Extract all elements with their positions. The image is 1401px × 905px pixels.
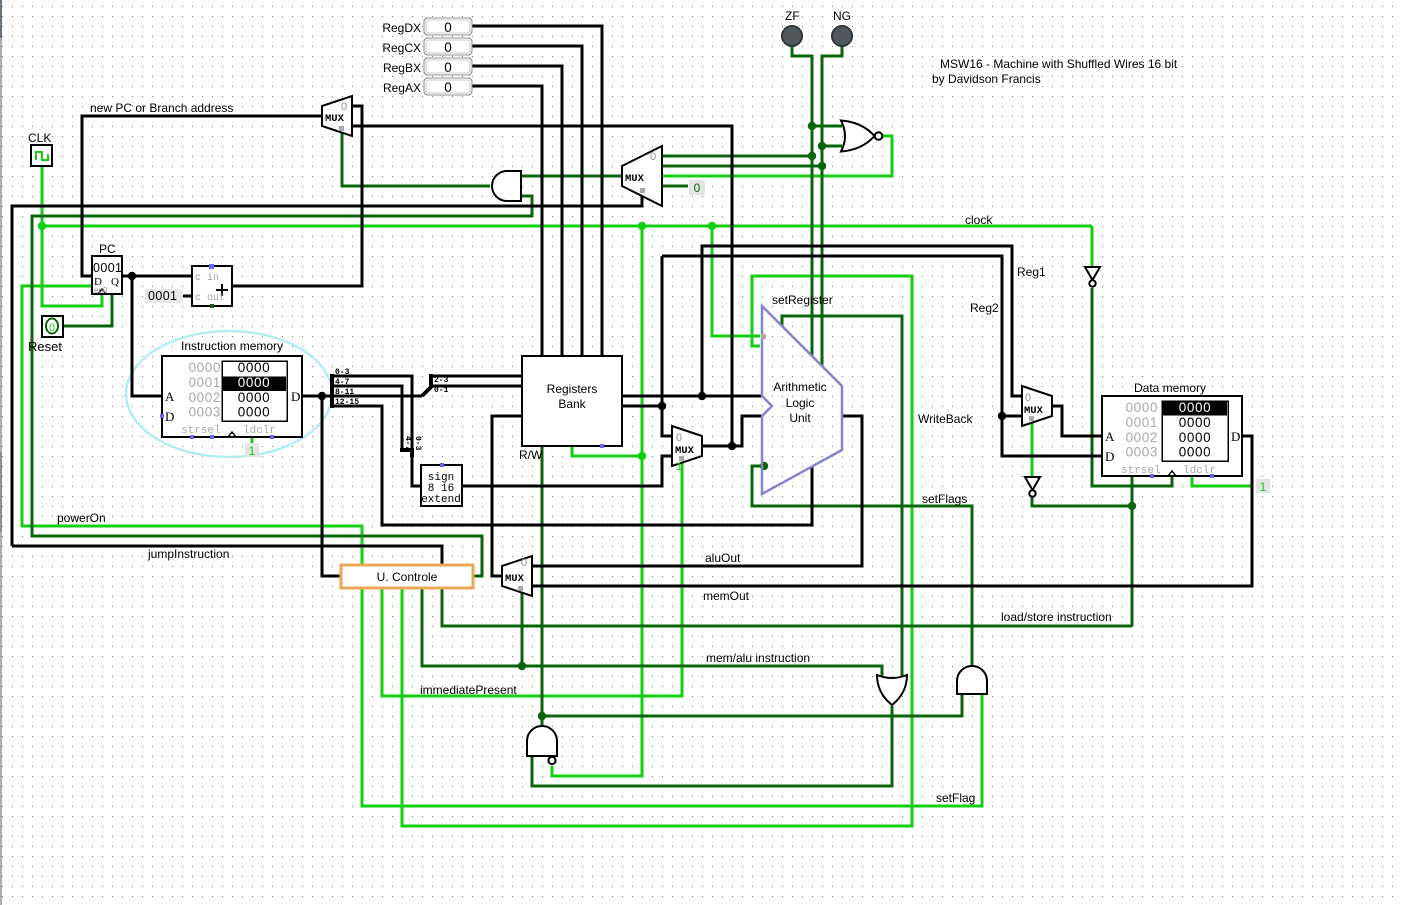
svg-text:Logic: Logic bbox=[786, 396, 815, 410]
svg-text:en0: en0 bbox=[94, 286, 108, 295]
wire PC Q to adder bbox=[122, 275, 192, 278]
sign extend top pin bbox=[440, 463, 444, 467]
junction clock R/W bbox=[638, 452, 646, 460]
wire splitter3 trunk to sign extend bbox=[412, 457, 421, 486]
svg-text:1: 1 bbox=[249, 444, 256, 458]
data memory floating pins bbox=[1150, 474, 1214, 478]
wire instruction D bus bbox=[302, 395, 332, 398]
wire NG net vertical bbox=[822, 46, 842, 366]
svg-text:immediatePresent: immediatePresent bbox=[420, 683, 517, 697]
svg-text:MUX: MUX bbox=[505, 573, 525, 585]
constant 0001 label bbox=[145, 289, 183, 303]
wire MUX2 input 0 constant bbox=[662, 185, 688, 188]
svg-text:aluOut: aluOut bbox=[705, 551, 741, 565]
junction MUX5 out bbox=[728, 442, 736, 450]
wire splitter branch 12-15 opcode bbox=[332, 406, 812, 525]
wire R/W from Registers Bank bbox=[572, 446, 642, 456]
svg-text:Reset: Reset bbox=[28, 339, 62, 354]
mux MUX5 immediate bbox=[672, 426, 702, 466]
left window border bar bbox=[0, 0, 2, 905]
svg-text:0: 0 bbox=[650, 151, 656, 163]
svg-text:0001: 0001 bbox=[93, 261, 122, 275]
wire sign extend out to MUX5 bbox=[462, 456, 672, 486]
probe RegDX bbox=[424, 18, 472, 35]
probe RegBX inner bbox=[426, 60, 470, 73]
svg-text:0000: 0000 bbox=[1126, 400, 1158, 415]
svg-text:D: D bbox=[1105, 449, 1114, 464]
junction ZF MUX2 bbox=[808, 152, 816, 160]
svg-text:clock: clock bbox=[965, 213, 993, 227]
probe RegAX bbox=[424, 78, 472, 95]
svg-text:1: 1 bbox=[1260, 480, 1267, 494]
subcircuit U. Controle bbox=[341, 565, 473, 588]
svg-text:RegCX: RegCX bbox=[382, 41, 421, 55]
wire ALU flag to OR gate bbox=[782, 316, 902, 676]
data memory highlight row bbox=[1163, 402, 1227, 416]
mux MUX4 memory address bbox=[1022, 386, 1052, 426]
svg-text:setFlag: setFlag bbox=[936, 791, 975, 805]
svg-text:0000: 0000 bbox=[189, 360, 221, 375]
wire memOut bbox=[532, 436, 1252, 586]
data memory constant 1 bbox=[1256, 479, 1270, 494]
mux MUX3 writeback bbox=[502, 556, 532, 596]
svg-text:new PC or Branch address: new PC or Branch address bbox=[90, 101, 233, 115]
svg-text:MUX: MUX bbox=[625, 173, 645, 185]
wire new PC or Branch address bbox=[82, 116, 322, 276]
svg-text:0000: 0000 bbox=[238, 360, 270, 375]
register PC bbox=[92, 256, 122, 294]
svg-text:R/W: R/W bbox=[519, 448, 543, 462]
svg-text:0003: 0003 bbox=[1126, 445, 1158, 460]
svg-text:0: 0 bbox=[444, 60, 452, 75]
svg-text:mem/alu instruction: mem/alu instruction bbox=[706, 651, 810, 665]
svg-text:Unit: Unit bbox=[789, 411, 811, 425]
wire NG to NOR input bbox=[822, 145, 842, 148]
junction NG NOR bbox=[818, 142, 826, 150]
wire Registers Bank write enable bbox=[541, 446, 544, 726]
svg-text:D: D bbox=[1231, 429, 1240, 444]
svg-text:memOut: memOut bbox=[703, 589, 750, 603]
wire clock to PC clk bbox=[42, 226, 102, 306]
svg-text:4-7: 4-7 bbox=[335, 378, 350, 387]
svg-text:0000: 0000 bbox=[238, 375, 270, 390]
svg-text:c in: c in bbox=[195, 272, 219, 284]
junction Reg2 x=662 bbox=[658, 402, 666, 410]
wire ZF to MUX2 input bbox=[662, 155, 812, 158]
svg-text:0: 0 bbox=[444, 80, 452, 95]
and gate G1 west bbox=[492, 171, 521, 201]
wire clock branch x=712 to ALU bbox=[712, 226, 760, 336]
wire strsel up to data memory bbox=[1131, 476, 1134, 626]
svg-text:U. Controle: U. Controle bbox=[377, 570, 438, 584]
svg-text:jumpInstruction: jumpInstruction bbox=[147, 547, 229, 561]
junction strsel bbox=[1128, 502, 1136, 510]
wire RegBX probe bbox=[472, 66, 562, 356]
svg-text:D: D bbox=[165, 409, 174, 424]
wire NG to MUX2 input bbox=[662, 165, 822, 168]
svg-text:Instruction memory: Instruction memory bbox=[181, 339, 283, 353]
junction Reg2 data bbox=[998, 412, 1006, 420]
wire powerOn to PC enable bbox=[22, 286, 362, 566]
wire ZF to NOR input bbox=[812, 125, 842, 128]
instruction memory clock marker bbox=[228, 432, 236, 437]
wire splitter branch 0-3 bbox=[332, 376, 412, 449]
Registers Bank floating pin bbox=[600, 444, 604, 448]
wire clock branch x=642 down bbox=[552, 226, 642, 776]
svg-text:c out: c out bbox=[195, 293, 225, 304]
MUX2 constant 0 label bbox=[689, 180, 705, 195]
wire immediatePresent bbox=[382, 461, 682, 696]
junction PC Q bbox=[128, 272, 136, 280]
wire mem/alu instruction bbox=[422, 588, 882, 676]
svg-text:Reg1: Reg1 bbox=[1017, 265, 1046, 279]
svg-text:0: 0 bbox=[521, 557, 527, 569]
svg-text:A: A bbox=[165, 389, 175, 404]
adder PC+1 bbox=[192, 264, 232, 308]
svg-text:D: D bbox=[291, 389, 300, 404]
svg-text:2-3: 2-3 bbox=[434, 376, 449, 385]
svg-text:A: A bbox=[1105, 429, 1115, 444]
instruction memory box bbox=[162, 356, 302, 437]
MUX1 select pin square bbox=[339, 126, 344, 131]
wire PF from NOR to MUX bbox=[662, 136, 892, 176]
svg-text:Data memory: Data memory bbox=[1134, 381, 1206, 395]
svg-text:0: 0 bbox=[49, 322, 55, 334]
MUX5 select pin square bbox=[679, 456, 684, 461]
wire CLK output down bbox=[41, 166, 44, 226]
svg-text:0000: 0000 bbox=[1179, 445, 1211, 460]
svg-text:0: 0 bbox=[676, 432, 682, 444]
wire splitter2 branch 2-3 bbox=[431, 375, 522, 378]
splitter instruction word fanout bbox=[330, 374, 334, 408]
mux MUX1 new PC select bbox=[322, 96, 352, 136]
svg-text:Reg2: Reg2 bbox=[970, 301, 999, 315]
wire constant 0001 to adder bbox=[182, 295, 192, 298]
wire adder out to MUX1 input0 bbox=[232, 106, 362, 286]
svg-text:CLK: CLK bbox=[28, 131, 51, 145]
junction ZF NOR bbox=[808, 122, 816, 130]
or gate south bbox=[877, 675, 907, 705]
wire PC Q to instruction memory A bbox=[132, 276, 162, 396]
probe RegBX bbox=[424, 58, 472, 75]
wire clock to inverter bbox=[1091, 226, 1094, 266]
not gate clock inverter bbox=[1085, 267, 1100, 287]
svg-text:0-3: 0-3 bbox=[413, 436, 422, 451]
svg-text:0003: 0003 bbox=[189, 405, 221, 420]
svg-text:0: 0 bbox=[444, 40, 452, 55]
svg-text:strsel: strsel bbox=[1121, 465, 1161, 477]
svg-text:0: 0 bbox=[341, 101, 347, 113]
subcircuit Registers Bank bbox=[522, 356, 622, 446]
wire inverted clock to data memory bbox=[1092, 288, 1172, 486]
svg-text:0000: 0000 bbox=[238, 405, 270, 420]
svg-text:4-7: 4-7 bbox=[403, 436, 412, 451]
wire MUX4 out to data memory A bbox=[1052, 406, 1102, 436]
junction clock/CLK bbox=[38, 222, 46, 230]
svg-text:RegDX: RegDX bbox=[382, 21, 421, 35]
wire setFlags to ALU bbox=[752, 466, 972, 666]
svg-text:powerOn: powerOn bbox=[57, 511, 106, 525]
ALU body bbox=[762, 306, 842, 494]
wire aluOut bbox=[532, 416, 862, 566]
svg-text:0: 0 bbox=[694, 181, 701, 195]
wire setRegister bbox=[402, 276, 912, 826]
svg-text:RegBX: RegBX bbox=[383, 61, 421, 75]
svg-text:Q: Q bbox=[111, 276, 119, 288]
wire jumpInstruction bbox=[12, 546, 442, 566]
svg-text:1: 1 bbox=[676, 461, 682, 473]
svg-text:ZF: ZF bbox=[785, 9, 800, 23]
svg-text:NG: NG bbox=[833, 9, 851, 23]
svg-text:0001: 0001 bbox=[148, 289, 177, 303]
and gate G3 north bbox=[527, 726, 557, 764]
svg-text:0-1: 0-1 bbox=[434, 386, 449, 395]
wire Reg1 up and over bbox=[702, 246, 1022, 396]
instruction memory constant 1 bbox=[245, 443, 259, 458]
svg-text:0001: 0001 bbox=[189, 375, 221, 390]
svg-text:extend: extend bbox=[421, 494, 461, 506]
subcircuit sign extend bbox=[421, 465, 462, 506]
wire setFlag bbox=[362, 588, 982, 806]
wire MUX2 out to AND bbox=[522, 175, 622, 178]
probe RegDX inner bbox=[426, 20, 470, 33]
data memory box bbox=[1102, 396, 1242, 476]
svg-text:0002: 0002 bbox=[1126, 430, 1158, 445]
svg-text:MUX: MUX bbox=[1024, 405, 1044, 417]
svg-text:setFlags: setFlags bbox=[922, 492, 967, 506]
wire MUX5 out bus bbox=[352, 126, 732, 446]
svg-text:strsel: strsel bbox=[181, 425, 221, 437]
wire MUX3 select bbox=[521, 591, 524, 666]
svg-text:by Davidson Francis: by Davidson Francis bbox=[932, 72, 1041, 86]
junction Reg1 ALU A bbox=[698, 392, 706, 400]
data memory value frame bbox=[1162, 401, 1228, 461]
junction clock x=712 bbox=[708, 222, 716, 230]
wire mux select to inverter bbox=[1031, 421, 1034, 476]
wire inverter2 out to strsel net bbox=[1032, 495, 1132, 506]
wire instruction bus to MUX2 select bbox=[12, 196, 642, 546]
wire Reg2 to MUX4 input bbox=[1002, 415, 1022, 418]
probe ZF bbox=[782, 26, 802, 46]
junction instruction D bbox=[318, 392, 326, 400]
wire splitter2 branch 0-1 bbox=[431, 385, 522, 388]
svg-text:Arithmetic: Arithmetic bbox=[773, 380, 826, 394]
ALU clock pin square bbox=[761, 334, 766, 339]
wire Reg2 to MUX5 input0 bbox=[622, 405, 662, 408]
wire Reg2 over to data memory bbox=[662, 256, 1102, 456]
clock input CLK bbox=[31, 145, 52, 166]
svg-text:WriteBack: WriteBack bbox=[918, 412, 973, 426]
svg-text:MUX: MUX bbox=[675, 445, 695, 457]
junction clock x=642 bbox=[638, 222, 646, 230]
svg-text:12-15: 12-15 bbox=[335, 398, 359, 407]
wire RegCX probe bbox=[472, 46, 582, 356]
probe RegCX bbox=[424, 38, 472, 55]
wire Reg2 vertical x=662 bbox=[662, 256, 672, 436]
junction write enable bbox=[538, 712, 546, 720]
svg-text:8-11: 8-11 bbox=[335, 388, 354, 397]
svg-text:PC: PC bbox=[99, 242, 116, 256]
wire data memory ldclr 1 bbox=[1192, 476, 1252, 486]
wire MUX1 select bbox=[342, 132, 490, 186]
MUX4 select pin square bbox=[1029, 416, 1034, 421]
wire instruction memory ldclr 1 bbox=[251, 437, 254, 447]
svg-text:0-3: 0-3 bbox=[335, 368, 350, 377]
probe NG bbox=[832, 26, 852, 46]
svg-text:0001: 0001 bbox=[1126, 415, 1158, 430]
junction NG MUX2 bbox=[818, 162, 826, 170]
svg-text:Bank: Bank bbox=[558, 397, 586, 411]
svg-text:0000: 0000 bbox=[1179, 415, 1211, 430]
svg-text:0002: 0002 bbox=[189, 390, 221, 405]
wire RegAX probe bbox=[472, 86, 542, 356]
wire bus to ALU input B bbox=[732, 416, 762, 446]
svg-text:load/store instruction: load/store instruction bbox=[1001, 610, 1112, 624]
wire U.Controle out to AND input bbox=[32, 196, 532, 576]
wire Reset to PC bbox=[62, 294, 112, 326]
svg-text:MUX: MUX bbox=[325, 113, 345, 125]
wire Reg1 to ALU A bbox=[622, 395, 762, 398]
MUX3 select pin square bbox=[518, 586, 523, 591]
svg-text:0000: 0000 bbox=[238, 390, 270, 405]
svg-text:0: 0 bbox=[444, 20, 452, 35]
svg-text:MSW16 - Machine with Shuffled: MSW16 - Machine with Shuffled Wires 16 b… bbox=[940, 57, 1178, 71]
svg-text:0: 0 bbox=[1025, 392, 1031, 404]
wire splitter branch 4-7 bbox=[332, 386, 402, 449]
svg-text:0000: 0000 bbox=[1179, 430, 1211, 445]
instruction memory floating pins bbox=[160, 414, 274, 439]
mux MUX2 flags bbox=[622, 146, 662, 206]
and gate G4 north bbox=[957, 666, 987, 694]
data memory clock marker bbox=[1168, 471, 1176, 476]
wire AND gate to y716 line bbox=[542, 694, 962, 716]
wire OR out to AND input bbox=[532, 706, 892, 786]
junction setFlags ALU pin bbox=[760, 462, 768, 470]
wire RegDX probe bbox=[472, 26, 602, 356]
MUX2 select pin square bbox=[640, 188, 645, 193]
instruction memory highlight row bbox=[223, 377, 286, 392]
button Reset bbox=[42, 316, 63, 337]
wire MUX3 out to Registers Bank bbox=[492, 416, 522, 576]
svg-text:RegAX: RegAX bbox=[383, 81, 421, 95]
instruction memory halo ellipse bbox=[126, 331, 332, 457]
wire ZF net vertical bbox=[792, 46, 812, 356]
probe RegCX inner bbox=[426, 40, 470, 53]
wire load/store instruction bbox=[442, 588, 1132, 626]
instruction memory value frame bbox=[222, 361, 287, 421]
not gate strobe inverter bbox=[1025, 477, 1040, 497]
svg-text:setRegister: setRegister bbox=[772, 293, 833, 307]
wire clock main horizontal y=226 bbox=[42, 225, 1092, 228]
svg-text:Registers: Registers bbox=[547, 382, 598, 396]
wire splitter branch 8-11 bbox=[332, 395, 422, 398]
nor gate PF bbox=[841, 121, 882, 152]
splitter immediate combiner bbox=[400, 450, 414, 457]
junction MUX3 select bbox=[518, 662, 526, 670]
splitter register select bbox=[422, 374, 431, 396]
probe RegAX inner bbox=[426, 80, 470, 93]
svg-text:0000: 0000 bbox=[1179, 400, 1211, 415]
wire instruction bus down to U.Controle bbox=[322, 396, 342, 576]
